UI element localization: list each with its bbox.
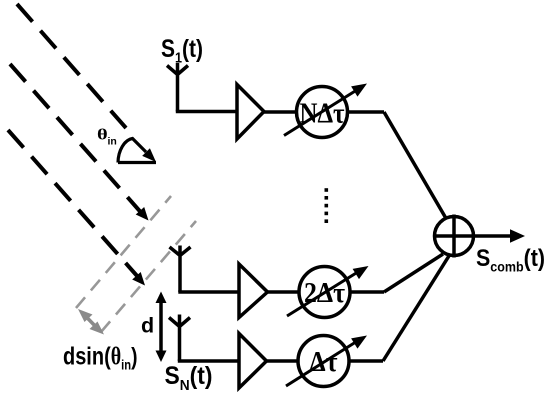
antenna A3: [169, 315, 190, 362]
wire row3 antenna to amp: [178, 359, 239, 363]
svg-text:S1(t): S1(t): [161, 35, 203, 67]
svg-text:dsin(θin): dsin(θin): [63, 343, 138, 373]
variable delay cell Δτ: [286, 336, 367, 387]
label S_comb(t): [476, 245, 545, 275]
wavefront gray dashed line A: [76, 196, 171, 308]
svg-text:θ: θ: [97, 127, 108, 144]
wave arrow W3 (dashed incoming wave with arrowhead): [8, 130, 145, 286]
antenna A1: [167, 63, 188, 112]
label dsin(theta_in): [63, 343, 138, 373]
amplifier U3: [239, 334, 267, 389]
wire diagonal row2 to combiner: [384, 254, 443, 292]
output arrow: [510, 229, 525, 242]
amplifier U2: [239, 264, 268, 318]
wire delay2 to bend: [350, 290, 384, 294]
wire amp3 to delay3: [266, 359, 298, 363]
wavefront gray dashed line B: [101, 221, 196, 332]
wire diagonal row1 to combiner: [384, 112, 446, 218]
svg-text:Scomb(t): Scomb(t): [476, 245, 545, 275]
wire row2 antenna to amp: [178, 290, 239, 294]
vertical ellipsis dots: [325, 188, 329, 223]
svg-text:in: in: [108, 136, 117, 148]
wire delay3 to bend: [349, 359, 383, 363]
wave arrow W1 (dashed incoming wave, no head): [17, 4, 126, 128]
angle indicator arc for theta_in: [118, 139, 156, 163]
label S_N(t): [165, 362, 213, 394]
gray double arrow dsin spacing: [78, 309, 104, 335]
wire row1 antenna to amp: [176, 110, 237, 114]
wire diagonal row3 to combiner: [383, 254, 451, 362]
variable delay cell 2Δτ: [287, 266, 369, 318]
combiner (summer): [435, 215, 513, 258]
label theta_in: [97, 127, 117, 148]
label S_1(t): [161, 35, 203, 67]
variable delay cell NΔτ: [284, 84, 367, 138]
wire delay1 to bend: [348, 110, 385, 114]
element spacing arrow d: [156, 292, 167, 363]
wave arrow W2 (dashed incoming wave with arrowhead): [10, 64, 149, 221]
amplifier U1: [237, 85, 264, 140]
svg-text:SN(t): SN(t): [165, 362, 213, 394]
wire amp1 to delay1: [264, 110, 297, 114]
antenna A2: [170, 246, 191, 293]
wire amp2 to delay2: [267, 290, 299, 294]
svg-text:d: d: [141, 314, 154, 338]
